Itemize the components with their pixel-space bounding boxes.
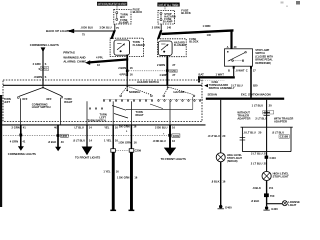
svg-text:OFF: OFF — [46, 97, 52, 101]
svg-text:41: 41 — [22, 140, 25, 144]
svg-text:RIGHT: RIGHT — [64, 100, 72, 104]
svg-text:.8 LT BLU: .8 LT BLU — [73, 138, 85, 142]
svg-text:1 DK GRN: 1 DK GRN — [118, 140, 131, 144]
svg-text:16: 16 — [115, 125, 118, 129]
svg-text:16: 16 — [130, 66, 133, 70]
svg-text:3 DK BLU: 3 DK BLU — [100, 26, 112, 30]
svg-text:C200: C200 — [41, 67, 48, 71]
svg-text:PRNTAG: PRNTAG — [63, 50, 75, 54]
svg-text:BLOCK: BLOCK — [189, 40, 198, 44]
svg-text:.8 BLK: .8 BLK — [211, 179, 220, 183]
svg-text:1 DK GRN: 1 DK GRN — [117, 176, 130, 180]
svg-text:CORNERING LIGHTS: CORNERING LIGHTS — [8, 152, 36, 156]
svg-text:2 LT BLU: 2 LT BLU — [255, 117, 267, 121]
svg-text:LT BLU: LT BLU — [75, 125, 84, 129]
svg-text:16: 16 — [134, 140, 137, 144]
svg-text:C200: C200 — [61, 135, 67, 138]
svg-text:OFF: OFF — [22, 97, 28, 101]
svg-text:2 GRN: 2 GRN — [12, 125, 20, 129]
svg-text:BLOCK: BLOCK — [133, 10, 143, 14]
svg-text:1 WHT: 1 WHT — [216, 72, 225, 76]
svg-text:DK GRN: DK GRN — [119, 124, 130, 128]
svg-text:HAZARD SWITCH: HAZARD SWITCH — [137, 80, 159, 84]
svg-text:(SEDAN): (SEDAN) — [227, 160, 238, 163]
svg-text:2 LT BLU: 2 LT BLU — [231, 83, 243, 87]
svg-text:2 GRN: 2 GRN — [33, 62, 41, 66]
svg-text:4 BRN: 4 BRN — [159, 73, 167, 77]
svg-text:2 BRN: 2 BRN — [118, 66, 126, 70]
svg-text:4 GRN: 4 GRN — [10, 140, 18, 144]
svg-text:.8 LT BLU: .8 LT BLU — [243, 130, 255, 134]
svg-text:16: 16 — [130, 72, 133, 76]
svg-text:17: 17 — [253, 68, 256, 72]
svg-text:TO FRONT LIGHTS: TO FRONT LIGHTS — [161, 157, 186, 161]
svg-text:1 YEL: 1 YEL — [104, 138, 112, 142]
svg-text:16: 16 — [133, 124, 136, 128]
svg-text:BAT: BAT — [199, 72, 205, 76]
svg-text:4 PPL: 4 PPL — [119, 72, 127, 76]
svg-text:27: 27 — [172, 73, 175, 77]
svg-text:20: 20 — [222, 134, 225, 138]
svg-text:27: 27 — [172, 63, 175, 67]
svg-text:BLOCK: BLOCK — [181, 11, 191, 15]
svg-text:RIGHT: RIGHT — [136, 113, 144, 117]
svg-text:1 LT BLU: 1 LT BLU — [252, 103, 264, 107]
svg-text:.8 BLK: .8 BLK — [252, 186, 261, 190]
svg-text:14: 14 — [89, 138, 92, 142]
svg-text:2 ORN: 2 ORN — [152, 26, 160, 30]
svg-text:2 LT BLU: 2 LT BLU — [251, 151, 263, 155]
svg-text:FLASHER: FLASHER — [133, 43, 145, 47]
svg-text:.8 DK BLU: .8 DK BLU — [81, 26, 94, 30]
svg-text:20: 20 — [258, 130, 261, 134]
svg-text:.8 BRN: .8 BRN — [34, 75, 43, 79]
svg-text:1 ORN: 1 ORN — [203, 24, 211, 28]
svg-text:SEDAN: SEDAN — [208, 93, 217, 97]
svg-text:C: C — [246, 68, 248, 72]
svg-text:16: 16 — [222, 179, 225, 183]
svg-text:G400: G400 — [225, 206, 232, 210]
svg-text:4 PPL: 4 PPL — [96, 55, 104, 59]
svg-text:BACK UP LIGHTS: BACK UP LIGHTS — [46, 29, 71, 33]
svg-text:14: 14 — [89, 125, 92, 129]
svg-text:20 AMP: 20 AMP — [119, 20, 129, 24]
svg-text:140: 140 — [167, 26, 172, 30]
svg-text:LIGHT SWITCH: LIGHT SWITCH — [32, 105, 51, 109]
svg-text:LIGHT: LIGHT — [288, 203, 296, 207]
svg-text:HAZARD: HAZARD — [174, 90, 185, 94]
svg-text:40: 40 — [61, 140, 64, 144]
svg-text:HOT IN RUN, BULB TEST OR START: HOT IN RUN, BULB TEST OR START — [98, 2, 127, 6]
svg-text:.8 BLK: .8 BLK — [251, 199, 260, 203]
svg-text:.8 BLK: .8 BLK — [48, 140, 57, 144]
svg-text:2 LT BLU: 2 LT BLU — [251, 161, 263, 165]
svg-text:EXC. STATION WAGON: EXC. STATION WAGON — [241, 93, 271, 97]
svg-text:.8 WHT: .8 WHT — [235, 68, 244, 72]
svg-text:1 YEL: 1 YEL — [103, 170, 111, 174]
svg-text:C210: C210 — [264, 111, 271, 115]
svg-text:S: S — [45, 75, 47, 79]
svg-text:CORNERING LIGHTS: CORNERING LIGHTS — [30, 43, 59, 47]
svg-text:S: S — [45, 62, 47, 66]
svg-text:B: B — [228, 68, 230, 72]
svg-text:20 AMP: 20 AMP — [163, 20, 173, 24]
svg-text:G400: G400 — [271, 207, 278, 211]
svg-text:DEPRESSED): DEPRESSED) — [255, 62, 271, 65]
svg-text:41: 41 — [23, 125, 26, 129]
svg-text:ADAPTER: ADAPTER — [274, 119, 287, 123]
svg-text:.8 LT BLU: .8 LT BLU — [272, 130, 284, 134]
svg-text:20: 20 — [264, 151, 267, 155]
svg-text:NORMAL: NORMAL — [129, 90, 141, 94]
svg-text:20: 20 — [264, 161, 267, 165]
svg-text:.8 DK BLU: .8 DK BLU — [153, 139, 166, 143]
svg-text:2 BRN: 2 BRN — [157, 63, 165, 67]
svg-text:C209: C209 — [135, 149, 142, 153]
svg-text:TO FRONT LIGHTS: TO FRONT LIGHTS — [75, 156, 100, 160]
svg-text:FLASHER: FLASHER — [174, 43, 186, 47]
svg-text:C210B: C210B — [280, 135, 288, 139]
svg-text:16: 16 — [172, 126, 175, 130]
svg-text:16: 16 — [172, 139, 175, 143]
svg-text:.8 LT BLU: .8 LT BLU — [208, 134, 220, 138]
svg-text:ALARMS: CHIME: ALARMS: CHIME — [63, 59, 86, 63]
svg-text:YEL: YEL — [104, 125, 110, 129]
svg-text:LEFT: LEFT — [4, 100, 11, 104]
svg-text:ADAPTER: ADAPTER — [237, 117, 250, 121]
svg-text:STOP LIGHT: STOP LIGHT — [273, 175, 289, 179]
svg-text:C204: C204 — [170, 69, 177, 73]
svg-text:2 DK BLU: 2 DK BLU — [155, 126, 167, 130]
svg-text:HOT AT ALL TIMES: HOT AT ALL TIMES — [159, 3, 179, 7]
svg-text:700: 700 — [270, 194, 275, 198]
svg-text:820: 820 — [253, 83, 258, 87]
svg-text:40: 40 — [54, 125, 57, 129]
svg-text:C410: C410 — [270, 156, 277, 160]
svg-text:151: 151 — [269, 186, 274, 190]
svg-text:20: 20 — [269, 103, 272, 107]
svg-text:140: 140 — [207, 33, 212, 37]
svg-text:TURN SWITCH: TURN SWITCH — [88, 119, 106, 123]
svg-text:C209: C209 — [173, 134, 180, 138]
